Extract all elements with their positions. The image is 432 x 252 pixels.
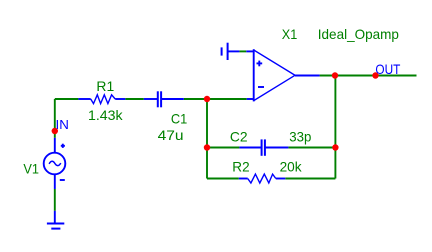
node OUT junction dot <box>372 72 378 78</box>
wire <box>334 76 336 179</box>
op-amp positive supply pin battery symbol <box>222 43 254 60</box>
svg-text:1.43k: 1.43k <box>88 108 123 123</box>
node IN junction dot <box>52 128 58 134</box>
resistor R1 <box>78 95 125 104</box>
wire <box>125 98 144 100</box>
resistor R2 <box>239 174 285 183</box>
junction dot at C1 output node <box>204 96 210 102</box>
svg-text:20k: 20k <box>280 160 302 175</box>
ground <box>47 211 64 229</box>
wire <box>239 50 246 52</box>
svg-text:33p: 33p <box>289 130 311 145</box>
wire <box>54 189 56 211</box>
junction dot C2 left <box>204 144 210 150</box>
junction dot at op-amp output <box>332 72 338 78</box>
wire <box>288 147 335 149</box>
svg-text:C1: C1 <box>171 111 187 126</box>
wire <box>207 178 239 180</box>
capacitor C2 <box>239 139 288 155</box>
junction dot C2 right <box>332 144 338 150</box>
svg-text:R2: R2 <box>232 160 249 175</box>
svg-text:Ideal_Opamp: Ideal_Opamp <box>318 27 399 42</box>
svg-text:X1: X1 <box>282 27 298 42</box>
svg-text:OUT: OUT <box>375 62 400 77</box>
wire <box>320 75 417 77</box>
svg-text:IN: IN <box>56 118 69 132</box>
capacitor C1 <box>144 91 184 107</box>
op-amp X1 <box>247 49 320 101</box>
voltage source V1 <box>44 138 66 189</box>
wire <box>206 99 208 179</box>
svg-text:47u: 47u <box>158 128 184 143</box>
wire <box>55 98 79 100</box>
svg-text:R1: R1 <box>96 79 114 94</box>
wire <box>285 178 335 180</box>
svg-text:C2: C2 <box>230 130 248 145</box>
wire <box>54 99 56 138</box>
svg-text:V1: V1 <box>23 161 39 176</box>
wire <box>184 98 247 100</box>
wire <box>207 147 239 149</box>
